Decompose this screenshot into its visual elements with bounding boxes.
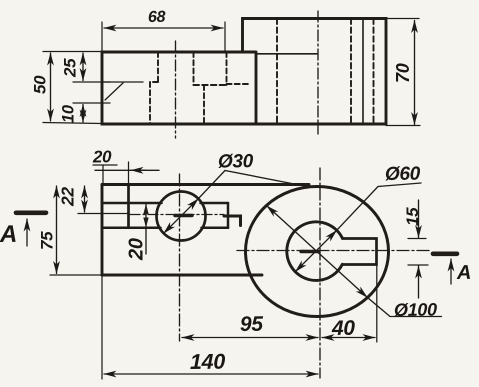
top view hidden keyway left: [350, 19, 352, 125]
keyseat thick bar in small hole: [175, 214, 192, 217]
top view thin edge to centerline: [256, 53, 317, 55]
dim 75 line: [56, 186, 58, 274]
front view step edge V1: [127, 185, 130, 228]
dim 15 ext top: [408, 238, 426, 240]
top view plate right edge: [243, 52, 257, 124]
dim 15 line upper: [418, 200, 420, 238]
svg-text:25: 25: [61, 58, 80, 78]
top view diagonal chamfer line: [105, 83, 123, 100]
dim 25 line: [82, 53, 84, 81]
dim 70 line: [414, 21, 416, 125]
dim 22 line: [84, 186, 86, 212]
svg-text:20: 20: [126, 238, 148, 261]
svg-text:10: 10: [60, 104, 78, 123]
small hole horizontal centerline solid ext: [78, 213, 129, 215]
top view hidden line slot left lower: [149, 82, 151, 124]
boss thick center bar: [301, 250, 318, 253]
top view bore right solid: [362, 19, 364, 125]
front view band top right: [201, 202, 229, 205]
dim 15 ext bottom: [408, 264, 428, 266]
dim 40 line: [322, 337, 375, 339]
svg-text:Ø30: Ø30: [218, 151, 254, 172]
dim phi100 diameter line: [267, 206, 368, 298]
svg-text:20: 20: [92, 147, 112, 166]
section arrow left: [26, 219, 28, 246]
dim phi60 diameter line: [295, 230, 336, 271]
svg-text:22: 22: [58, 187, 78, 207]
front view band bottom right: [202, 227, 229, 230]
boss horizontal centerline: [237, 250, 432, 252]
dim 20 mid arrow up: [143, 204, 148, 214]
dim 68 extension right: [224, 22, 226, 53]
small hole vertical centerline: [179, 174, 181, 341]
keyway outline: [342, 239, 376, 265]
dim 50 line: [50, 53, 52, 121]
dim 75 ext bottom: [50, 274, 102, 276]
front view band bottom left: [102, 227, 161, 230]
dim 95 line: [182, 337, 318, 339]
svg-text:75: 75: [38, 231, 57, 250]
dim 70 ext top: [386, 18, 419, 20]
top view hidden line slot left upper: [157, 52, 159, 82]
dim 25 ext bottom: [73, 81, 110, 83]
dim phi30 diameter line: [164, 199, 199, 234]
top view hidden jog: [150, 81, 158, 83]
dim 20 mid line: [145, 205, 147, 255]
dim phi60 leader: [337, 183, 421, 230]
dim 50 ext bottom: [43, 123, 102, 124]
top view outline: [102, 19, 386, 125]
dim 50 ext top: [43, 51, 102, 53]
dim 70 ext bottom: [386, 125, 420, 127]
section plane right bar: [433, 252, 457, 257]
section arrow right: [450, 259, 452, 284]
dim 68 line: [104, 27, 223, 29]
dim 20 mid arrow down: [143, 218, 148, 228]
front view band top left: [102, 202, 162, 205]
svg-text:50: 50: [31, 75, 50, 94]
svg-text:140: 140: [190, 350, 226, 374]
svg-text:68: 68: [148, 9, 166, 26]
top view centerline left hole: [175, 41, 177, 138]
top view thin horizontal y82: [102, 81, 143, 83]
top view hidden centre drop: [203, 85, 205, 124]
ext keyway edge down: [376, 266, 378, 342]
svg-text:70: 70: [393, 63, 413, 83]
dim 10 ext top: [73, 102, 110, 104]
front view plate top edge: [102, 183, 309, 186]
top view hidden elbow to plate edge: [227, 83, 252, 85]
top view centerline right boss: [317, 11, 319, 134]
dim 20 top ext right: [128, 162, 130, 185]
dim 140 left ext: [101, 275, 103, 379]
dim phi30 leader: [198, 171, 307, 199]
svg-text:Ø60: Ø60: [385, 164, 421, 185]
bore circle with keyway gap: [287, 222, 343, 281]
section plane left bar: [16, 211, 46, 216]
svg-text:15: 15: [403, 207, 422, 226]
dim 10 line: [82, 105, 84, 123]
dim 68 extension left: [101, 22, 103, 52]
dim 20 top arrow: [131, 169, 146, 171]
front view band right closure: [227, 203, 230, 228]
top view hidden U-slot bottom: [194, 84, 227, 86]
svg-text:A: A: [0, 221, 17, 248]
top view hidden keyway right: [373, 19, 375, 125]
svg-text:95: 95: [240, 313, 264, 336]
boss vertical centerline: [319, 168, 321, 378]
svg-text:40: 40: [331, 317, 356, 340]
small hole circle: [157, 192, 206, 241]
front view plate bottom edge: [102, 274, 262, 277]
top view hidden U-slot left leg: [193, 52, 195, 85]
top view hidden U-slot right leg: [226, 52, 228, 85]
dim 20 top line: [95, 169, 159, 171]
small hole horizontal centerline dashdot: [130, 214, 224, 216]
top view hidden bore left: [276, 19, 278, 125]
front view plate left edge: [101, 185, 104, 276]
svg-text:Ø100: Ø100: [394, 300, 437, 320]
big boss outer ellipse: [246, 187, 389, 317]
thick hook mark right of band: [224, 216, 241, 226]
dim 140 line: [104, 373, 318, 375]
dim 15 line lower: [418, 266, 420, 298]
dim 20 top underline: [93, 164, 117, 166]
dim phi100 leader: [367, 297, 441, 316]
svg-text:A: A: [456, 262, 471, 284]
dim 20 top ext left: [102, 165, 104, 185]
